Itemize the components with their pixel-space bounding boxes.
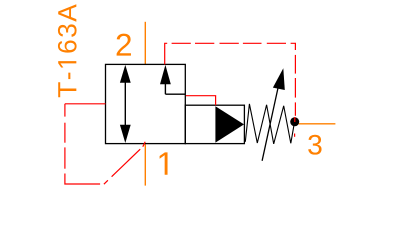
port label 3	[308, 135, 321, 155]
red pilot wire to check valve (solid)	[186, 96, 216, 106]
node dot (junction)	[290, 117, 299, 126]
double-headed flow arrow	[120, 65, 131, 143]
valve body envelope	[106, 64, 186, 143]
internal shelf wire	[165, 93, 185, 95]
red dashed pilot wire bottom corner	[65, 174, 100, 185]
check valve poppet triangle	[215, 106, 244, 142]
red dashed drain diagonal	[104, 142, 145, 184]
red pilot wire left horizontal (solid)	[65, 103, 106, 105]
spring	[245, 104, 294, 144]
port label 2	[117, 34, 131, 56]
red dashed pilot wire left vertical	[64, 104, 66, 169]
red dashed pilot wire right corner	[291, 43, 296, 50]
pilot flow arrow	[160, 65, 171, 94]
adjustment arrow	[262, 68, 285, 161]
wire port 3 (orange)	[299, 123, 336, 125]
check valve box	[185, 105, 244, 143]
red dashed pilot wire right vertical	[294, 55, 297, 137]
port label 1	[160, 152, 168, 174]
red dashed pilot wire top	[172, 42, 286, 44]
wire port 1 (orange)	[144, 144, 146, 185]
red pilot wire to port 2 arrow (solid)	[165, 43, 168, 64]
label T-163A (rotated valve title)	[58, 4, 77, 97]
wire port 2 (orange)	[144, 22, 146, 65]
